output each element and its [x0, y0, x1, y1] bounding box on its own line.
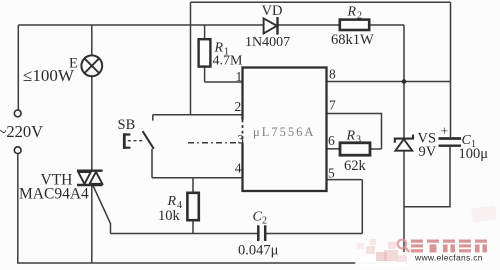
- svg-text:3: 3: [356, 135, 361, 146]
- triac VTH: [77, 171, 103, 185]
- wire SB top stub: [152, 115, 154, 121]
- svg-text:8: 8: [329, 66, 336, 81]
- wire bottom rail faded end: [381, 262, 408, 264]
- junction dot: [402, 79, 407, 84]
- wire R1 top stub: [204, 25, 206, 39]
- capacitor C2: [258, 225, 265, 241]
- wire triac gate diagonal: [93, 186, 111, 234]
- svg-text:6: 6: [328, 133, 335, 148]
- watermark mosaic blocks: [357, 239, 407, 262]
- svg-text:≤100W: ≤100W: [23, 66, 75, 85]
- wire left rail lower: [17, 154, 19, 263]
- svg-text:MAC94A4: MAC94A4: [19, 186, 89, 203]
- svg-text:C: C: [253, 209, 263, 224]
- svg-text:R: R: [347, 5, 357, 20]
- svg-text:62k: 62k: [344, 158, 367, 174]
- svg-text:1: 1: [236, 69, 243, 84]
- wire pin7: [327, 114, 382, 150]
- svg-text:5: 5: [328, 166, 335, 181]
- wire R1 bottom lead: [204, 67, 206, 82]
- wire pin4: [152, 177, 243, 179]
- svg-text:3: 3: [238, 133, 244, 147]
- resistor R1: [199, 39, 211, 66]
- capacitor C1: [439, 139, 462, 146]
- wire pin8: [327, 81, 451, 83]
- svg-text:SB: SB: [118, 117, 136, 133]
- svg-text:1N4007: 1N4007: [245, 35, 290, 50]
- svg-text:4: 4: [235, 161, 242, 176]
- wire R2 right to corner: [369, 24, 404, 26]
- node pin3 dash-dot wire: [188, 142, 243, 144]
- terminal upper: [14, 110, 21, 117]
- diode VD: [264, 17, 278, 34]
- node pin3 dashed vertical: [242, 120, 244, 143]
- wire lamp column upper: [91, 25, 93, 56]
- svg-text:100μ: 100μ: [459, 146, 489, 162]
- svg-text:7: 7: [329, 98, 336, 113]
- wire top rail: [18, 24, 340, 26]
- svg-text:R: R: [346, 129, 356, 144]
- lamp E: [81, 55, 102, 76]
- svg-text:VD: VD: [262, 3, 283, 19]
- watermark text blocks: [411, 240, 487, 253]
- wire pin5 vertical: [361, 180, 363, 234]
- wire right column through VS: [403, 25, 405, 263]
- wire gate rail left of C2: [111, 233, 258, 235]
- watermark white swoosh: [355, 251, 418, 269]
- svg-text:0.047μ: 0.047μ: [238, 242, 279, 258]
- wire R3 right lead: [370, 148, 382, 150]
- svg-text:9V: 9V: [419, 144, 437, 160]
- svg-text:4.7M: 4.7M: [213, 54, 244, 69]
- resistor R2: [340, 20, 369, 30]
- resistor R3: [340, 143, 370, 155]
- pushbutton SB: [124, 131, 154, 149]
- svg-text:μL7556A: μL7556A: [253, 125, 315, 139]
- svg-text:2: 2: [235, 99, 242, 114]
- svg-text:+: +: [441, 124, 449, 139]
- watermark logo magnifier: [398, 240, 410, 252]
- svg-text:68k1W: 68k1W: [331, 32, 374, 48]
- zener VS: [395, 135, 413, 151]
- wire SB bottom lead: [151, 149, 153, 178]
- wire pin2: [153, 114, 243, 116]
- wire lamp to triac: [91, 76, 93, 170]
- wire bottom rail: [17, 262, 381, 264]
- svg-text:2: 2: [262, 215, 267, 226]
- wire gate rail right of C2: [266, 233, 362, 235]
- svg-text:10k: 10k: [158, 208, 181, 224]
- wire C1 bottom lead: [404, 147, 450, 207]
- watermark pale smear: [471, 205, 497, 222]
- svg-text:~220V: ~220V: [0, 122, 43, 141]
- wire R4 top lead: [192, 178, 194, 193]
- node pin3 dashed segment on IC edge: [241, 120, 244, 144]
- wire pin6: [327, 148, 341, 150]
- wire vertical from top line to pin2: [190, 2, 192, 115]
- wire pin5: [327, 179, 363, 181]
- wire left rail upper: [17, 25, 19, 110]
- wire R4 bottom lead: [192, 220, 194, 233]
- wire pin1: [205, 81, 243, 83]
- wire right border: [450, 2, 452, 137]
- svg-text:2: 2: [357, 11, 362, 22]
- wire top line: [191, 1, 451, 3]
- svg-text:R: R: [167, 194, 177, 209]
- wire triac to bottom rail: [91, 185, 93, 263]
- svg-text:www.elecfans.cn: www.elecfans.cn: [414, 253, 483, 263]
- IC U1 box: [243, 68, 327, 192]
- terminal lower: [14, 147, 21, 154]
- resistor R4: [187, 193, 198, 220]
